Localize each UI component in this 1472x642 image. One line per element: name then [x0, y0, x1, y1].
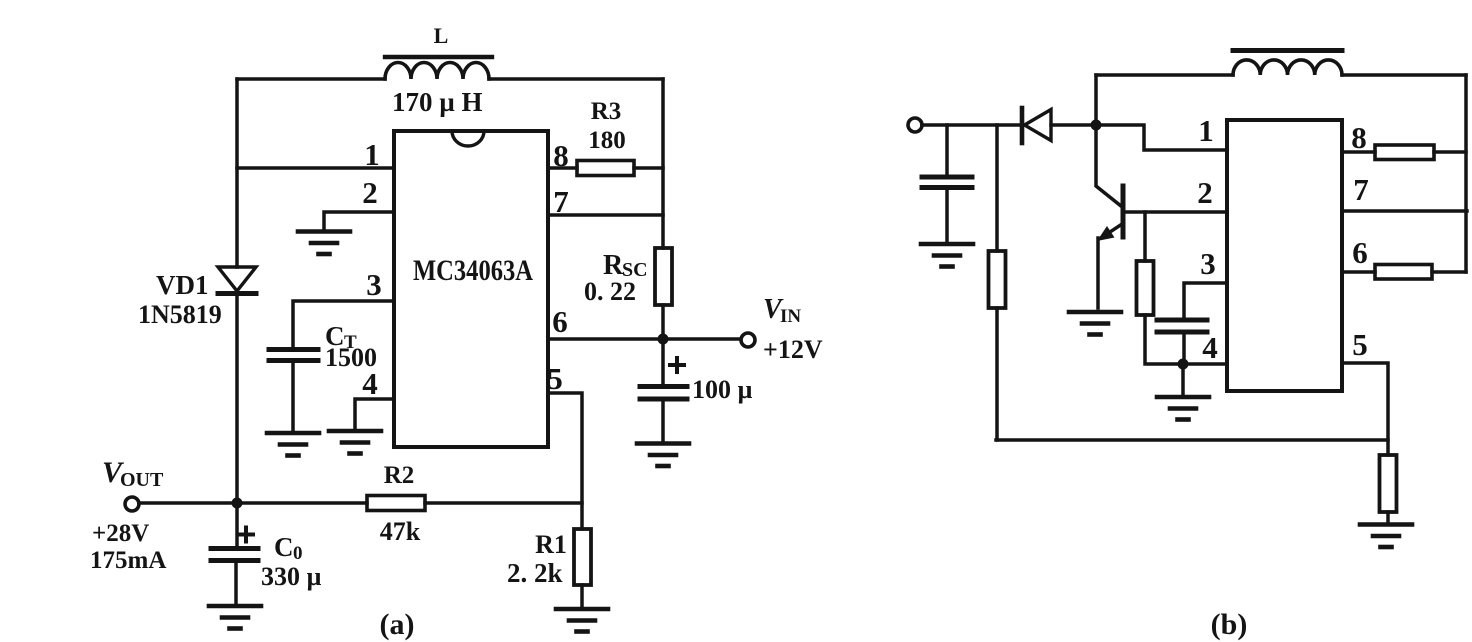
ground (b input capacitor) [921, 244, 973, 267]
label VOUT [102, 456, 164, 491]
wire pin 3 (b) [1184, 283, 1227, 318]
svg-text:MC34063A: MC34063A [413, 254, 533, 287]
wire lower resistor to ground [1386, 512, 1390, 523]
wire base resistor to pin4 node [1145, 315, 1183, 364]
svg-text:6: 6 [552, 304, 568, 339]
svg-text:8: 8 [1351, 120, 1367, 155]
wire R1 to ground [580, 585, 584, 608]
wire RSC to VIN node [661, 305, 665, 339]
inductor (b) [1233, 51, 1342, 76]
node: pin4 junction (b) [1178, 359, 1189, 370]
ground (100µ) [637, 444, 689, 467]
svg-text:IN: IN [780, 306, 801, 327]
diode VD1 [218, 267, 256, 294]
wire pin 3 [293, 301, 394, 347]
svg-text:0: 0 [293, 543, 303, 564]
wire pin 7 [548, 213, 663, 217]
svg-text:2. 2k: 2. 2k [507, 558, 563, 588]
wire: (a) right rail upper [661, 79, 665, 248]
wire pin6 resistor to rail [1432, 270, 1466, 274]
wire VIN node down to capacitor [661, 339, 665, 384]
ground (R1) [556, 609, 608, 632]
svg-text:4: 4 [362, 366, 378, 401]
svg-text:R2: R2 [384, 462, 415, 489]
ground (C0) [209, 606, 261, 629]
terminal VOUT [125, 497, 139, 511]
svg-text:175mA: 175mA [90, 547, 166, 574]
wire Q1 base to pin 2 [1125, 210, 1227, 214]
wire timing capacitor to pin4 node [1182, 332, 1186, 364]
terminal VIN [741, 333, 755, 347]
resistor (b feedback lower) [1380, 455, 1397, 512]
svg-text:C: C [274, 532, 294, 562]
wire: (b) bottom feedback line [996, 438, 1388, 442]
wire pin 7 (b) [1342, 209, 1467, 213]
wire capacitor 100µ to ground [661, 399, 665, 442]
capacitor 100µ polarity plus [670, 358, 684, 372]
resistor R1 [574, 529, 591, 585]
svg-text:180: 180 [588, 127, 626, 154]
resistor R2 [367, 496, 425, 511]
resistor RSC [655, 248, 672, 305]
wire pin 1 [237, 166, 394, 170]
svg-text:6: 6 [1352, 235, 1368, 270]
wire: (a) top rail right segment [489, 77, 663, 81]
svg-text:+12V: +12V [763, 335, 823, 364]
label VIN [763, 294, 801, 327]
svg-text:7: 7 [1353, 172, 1369, 207]
capacitor 100µ [640, 387, 687, 400]
wire switch node up to top line [1094, 75, 1098, 125]
wire pin 2 [324, 212, 394, 231]
svg-text:5: 5 [547, 361, 563, 396]
svg-text:3: 3 [1200, 246, 1216, 281]
wire pin 1 (b) [1096, 125, 1227, 150]
svg-text:L: L [434, 23, 449, 48]
op-amp U1 MC34063A body [394, 131, 548, 447]
capacitor (b timing) [1157, 320, 1207, 332]
node: switch junction (b) [1091, 120, 1102, 131]
svg-text:170 µ H: 170 µ H [392, 87, 483, 117]
inductor L [385, 57, 492, 79]
svg-text:5: 5 [1352, 327, 1368, 362]
svg-text:+28V: +28V [92, 520, 149, 547]
wire pin 8 [548, 166, 577, 170]
wire pin4 node to ground [1181, 364, 1185, 396]
svg-text:3: 3 [366, 267, 382, 302]
wire VOUT terminal to node [139, 501, 237, 505]
svg-text:R1: R1 [535, 530, 567, 559]
svg-text:R3: R3 [591, 98, 622, 125]
label RSC [603, 250, 648, 281]
svg-text:4: 4 [1202, 330, 1218, 365]
wire VOUT node down to C0 [235, 503, 239, 546]
resistor (b feedback upper) [989, 251, 1006, 308]
svg-text:0. 22: 0. 22 [584, 277, 636, 306]
wire diode to switch node [1051, 123, 1096, 127]
ground (Q1 emitter) [1069, 312, 1121, 335]
wire feedback resistor to bottom line [995, 308, 999, 440]
resistor (b timing branch) [1137, 261, 1154, 315]
label C0 [274, 532, 303, 564]
wire pin 6 (b) [1342, 270, 1375, 274]
wire: (b) top line left segment [1096, 73, 1233, 77]
wire base resistor branch [1143, 212, 1147, 261]
ground (pin 4) [329, 431, 381, 454]
terminal input (b) [908, 118, 922, 132]
transistor Q1 collector wire [1096, 125, 1121, 206]
wire VOUT node to R2 [237, 501, 367, 505]
wire C0 to ground [234, 560, 238, 605]
capacitor (b input) [922, 177, 972, 188]
wire R2 to R1 top [425, 501, 582, 505]
label CT [325, 321, 357, 353]
wire pin8 resistor to rail [1434, 150, 1466, 154]
wire pin 4 (b) [1183, 362, 1227, 366]
svg-text:1N5819: 1N5819 [138, 300, 222, 329]
capacitor C0 polarity plus [239, 528, 253, 542]
svg-text:2: 2 [1197, 175, 1213, 210]
svg-text:330 µ: 330 µ [261, 562, 322, 591]
svg-text:2: 2 [362, 175, 378, 210]
svg-text:VD1: VD1 [156, 270, 209, 300]
wire CT to ground [291, 360, 295, 432]
svg-text:47k: 47k [380, 517, 421, 546]
ground (CT) [267, 433, 319, 456]
op-amp U2 body (b) [1227, 120, 1342, 391]
resistor R3 [577, 161, 634, 176]
wire input terminal to diode [922, 123, 1020, 127]
wire: (a) left rail upper [235, 79, 239, 267]
svg-text:(a): (a) [380, 608, 415, 641]
svg-text:100 µ: 100 µ [692, 375, 753, 404]
diode (b) [1022, 108, 1051, 143]
capacitor CT [269, 350, 318, 361]
wire: (a) top rail left segment [237, 77, 385, 81]
wire pin 5 [548, 393, 582, 529]
wire R3 to right rail [634, 166, 663, 170]
svg-text:OUT: OUT [120, 469, 164, 491]
resistor (pin 6 b) [1375, 265, 1432, 280]
ground (b feedback) [1360, 525, 1412, 548]
wire pin 4 [355, 399, 394, 430]
wire input capacitor branch [945, 125, 949, 175]
svg-text:(b): (b) [1211, 608, 1248, 641]
wire pin 8 (b) [1342, 150, 1375, 154]
transistor Q1 emitter [1097, 224, 1122, 241]
node: VOUT junction [232, 498, 243, 509]
svg-text:1: 1 [1198, 113, 1214, 148]
ground (pin 2) [298, 232, 350, 255]
transistor Q1 base bar [1121, 186, 1126, 237]
capacitor C0 [211, 549, 258, 561]
wire pin 6 [548, 337, 741, 341]
wire: (b) top line right segment [1342, 73, 1466, 77]
wire: (a) left rail lower [235, 296, 239, 503]
wire input capacitor to ground [945, 188, 949, 243]
node: VIN junction [658, 334, 669, 345]
resistor (pin 8 b) [1375, 145, 1434, 160]
wire feedback resistor branch [995, 125, 999, 251]
wire: (b) right rail [1464, 75, 1468, 272]
wire pin 5 (b) [1342, 363, 1388, 455]
ground (pin 4 b) [1157, 397, 1209, 420]
wire emitter to ground [1096, 238, 1100, 308]
